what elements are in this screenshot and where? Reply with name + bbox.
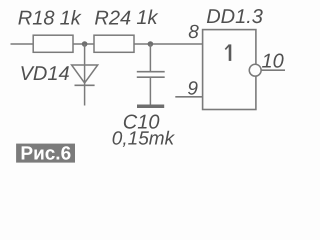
- svg-text:9: 9: [187, 79, 198, 100]
- wire output pin 10: [261, 69, 285, 71]
- svg-text:Рис.6: Рис.6: [20, 143, 71, 164]
- resistor R18: [33, 35, 73, 52]
- gate function symbol 1: [225, 44, 230, 61]
- svg-text:8: 8: [188, 22, 199, 43]
- node junction dot B (R24/C10/pin8): [148, 41, 154, 47]
- resistor R24: [94, 35, 134, 52]
- figure caption box Рис.6: [16, 144, 75, 163]
- diode VD14: [72, 65, 98, 106]
- capacitor C10: [137, 72, 165, 105]
- logic gate DD1.3 body: [203, 30, 256, 110]
- wire diode anode lead: [84, 44, 86, 65]
- ground bar: [137, 105, 164, 109]
- svg-text:0,15mk: 0,15mk: [112, 129, 176, 150]
- svg-text:VD14: VD14: [20, 63, 70, 85]
- svg-text:R24: R24: [94, 7, 131, 29]
- svg-text:DD1.3: DD1.3: [206, 6, 263, 28]
- svg-text:10: 10: [262, 51, 284, 73]
- svg-text:R18: R18: [18, 7, 55, 29]
- wire main horizontal net from left to gate pin 8: [11, 43, 203, 45]
- node junction dot A (R18/R24/VD14): [82, 41, 88, 47]
- wire capacitor top lead: [149, 44, 151, 72]
- inversion bubble on output: [249, 64, 261, 76]
- wire pin 9: [175, 96, 202, 98]
- svg-text:1k: 1k: [60, 7, 82, 29]
- svg-text:1k: 1k: [136, 7, 158, 29]
